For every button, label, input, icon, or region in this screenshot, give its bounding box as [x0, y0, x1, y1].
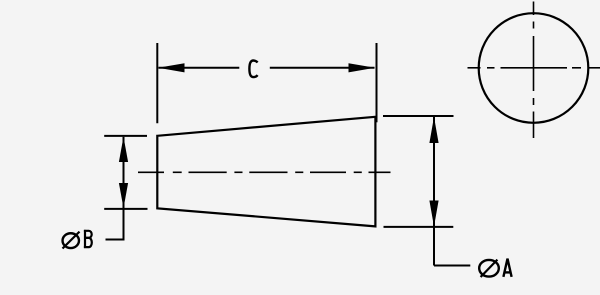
end-view circle: [479, 13, 589, 123]
dimension A extension line bottom: [384, 226, 454, 228]
dimension C extension line left: [156, 43, 158, 123]
dimension B leader: [106, 239, 125, 241]
dimension C line: [159, 67, 240, 69]
taper centerline (dash-dot): [138, 171, 391, 173]
taper side-view outline: [157, 117, 375, 227]
label A: [503, 259, 511, 277]
dimension B extension line top: [104, 135, 147, 137]
dimension C left arrowhead: [158, 63, 185, 72]
dimension B down arrowhead: [119, 183, 128, 208]
dimension C right arrowhead: [349, 63, 376, 72]
label C: [249, 61, 257, 78]
dimension A line: [433, 117, 435, 266]
dimension A up arrowhead: [429, 117, 438, 143]
dimension A down arrowhead: [429, 201, 438, 227]
dimension A leader: [434, 265, 470, 267]
end-view vertical centerline: [533, 2, 535, 139]
label B: [84, 230, 92, 248]
dimension A extension line top: [383, 115, 454, 117]
label diameter symbol of B: [63, 232, 80, 249]
label diameter symbol of A: [479, 260, 499, 277]
dimension B line: [123, 137, 125, 240]
dimension C extension line right: [376, 43, 378, 122]
dimension B up arrowhead: [119, 137, 128, 162]
end-view horizontal centerline: [468, 67, 600, 69]
dimension B extension line bottom: [104, 208, 147, 210]
